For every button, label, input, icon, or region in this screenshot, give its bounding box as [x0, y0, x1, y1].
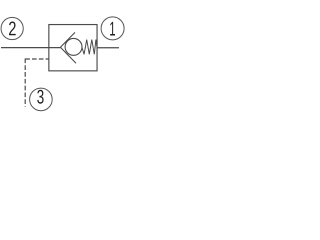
check valve seat (V) [60, 32, 76, 63]
digit 2 [9, 22, 16, 36]
port balloon 1 [101, 17, 124, 40]
pilot line (dashed) horizontal segment [25, 58, 49, 60]
wire: outlet line to port 1 [97, 47, 119, 49]
valve enclosure box [49, 25, 97, 71]
check valve ball [65, 38, 82, 55]
wire: port 2 inlet line [1, 47, 60, 49]
port balloon 3 [30, 88, 53, 111]
spring [82, 40, 97, 55]
digit 1 [110, 22, 115, 36]
pilot line (dashed) vertical segment to port 3 [24, 58, 26, 106]
port balloon 2 [1, 17, 23, 39]
digit 3 [37, 90, 43, 104]
